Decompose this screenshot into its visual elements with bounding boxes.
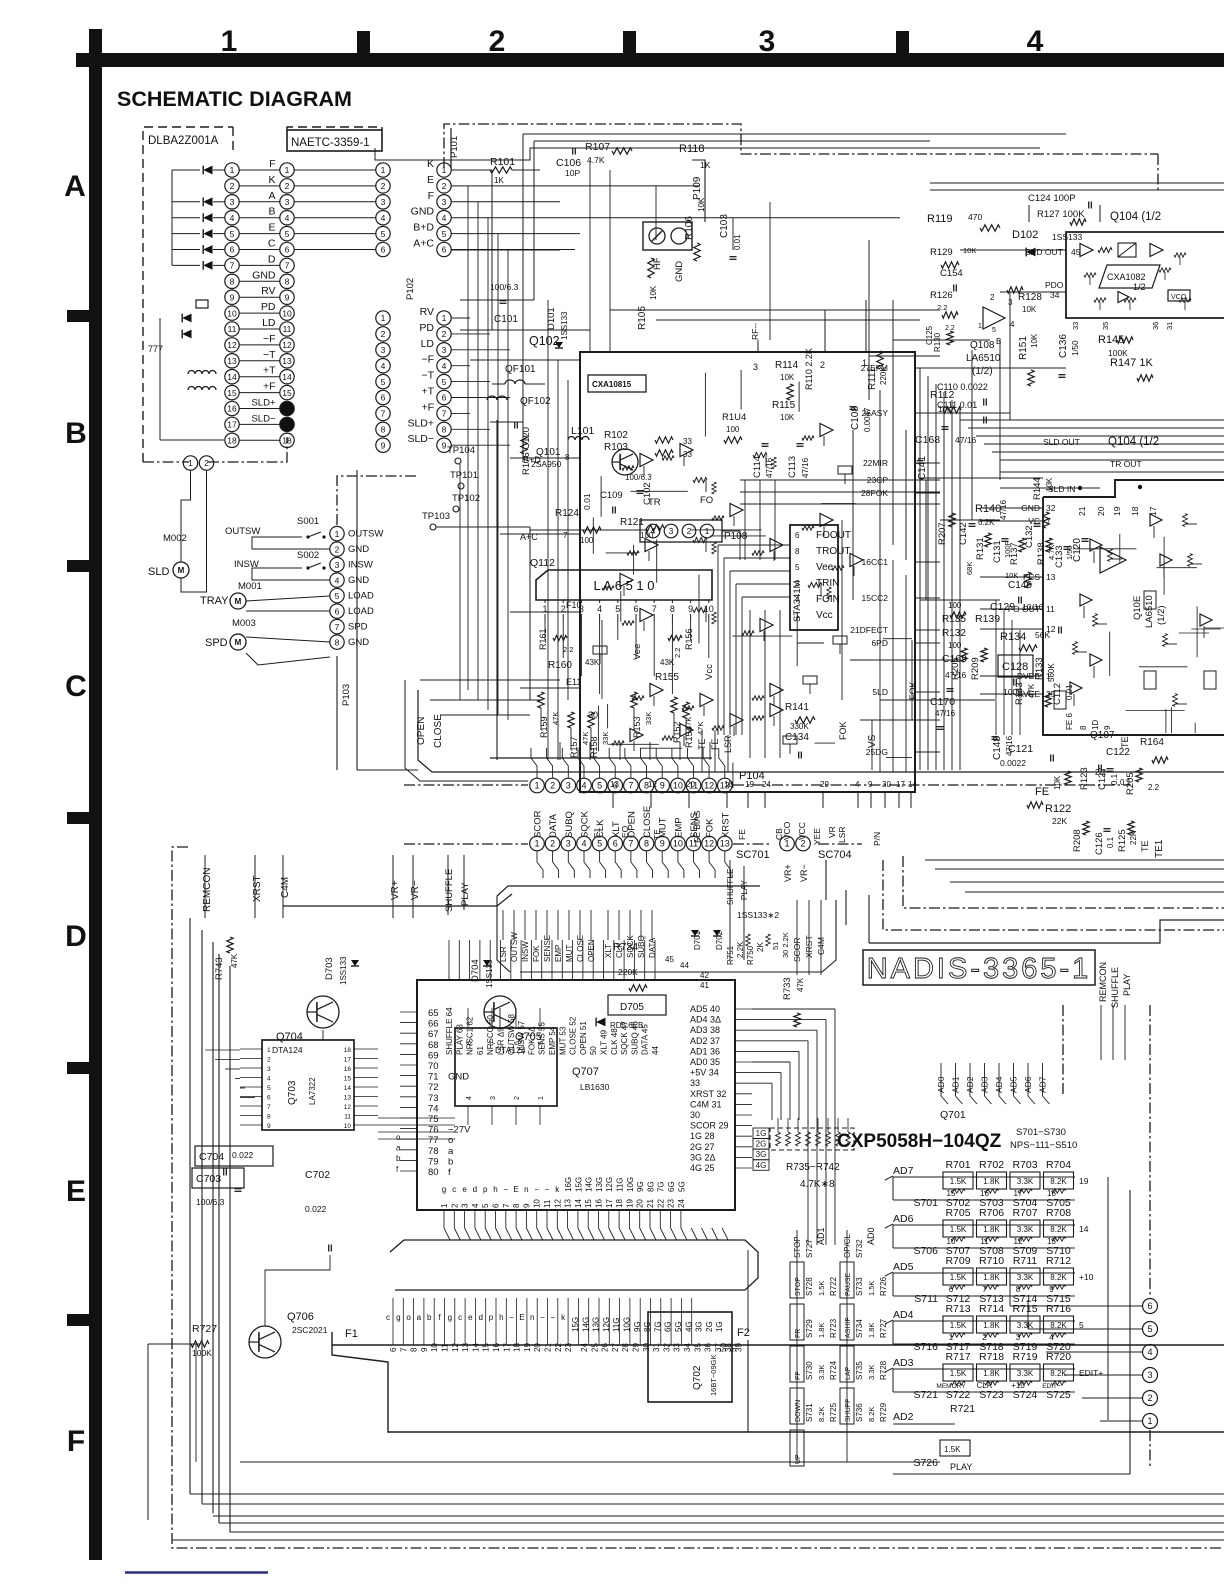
svg-text:+10: +10	[1079, 1272, 1094, 1282]
connector P104 pin 5	[592, 778, 607, 793]
connector P102 mate pin 1	[376, 311, 390, 325]
opamp Q108B LA6510 1/2	[983, 307, 1005, 329]
svg-text:25: 25	[590, 1343, 599, 1352]
svg-text:PD: PD	[261, 301, 276, 313]
svg-text:6: 6	[381, 245, 386, 255]
connector P103 pin 8	[330, 635, 344, 649]
svg-text:R127 100K: R127 100K	[1037, 209, 1085, 220]
svg-text:30: 30	[642, 1343, 651, 1352]
svg-text:9: 9	[660, 839, 665, 849]
wire trunk SHUFFLE PLAY risers	[729, 860, 731, 960]
svg-text:4: 4	[442, 213, 447, 223]
edge connector pin 1	[1143, 1414, 1158, 1429]
svg-text:Q10E: Q10E	[1132, 596, 1143, 620]
svg-text:5: 5	[381, 229, 386, 239]
connector P102 mate pin 8	[376, 422, 390, 436]
connector CN101 pin 6	[225, 242, 239, 256]
svg-text:2SC2021: 2SC2021	[292, 1325, 328, 1335]
wire verticals lower-left	[204, 855, 206, 918]
opamp Q104 internal 1	[1080, 244, 1093, 257]
svg-text:E: E	[519, 1313, 524, 1322]
svg-text:d: d	[473, 1185, 477, 1194]
svg-text:EMP: EMP	[554, 945, 563, 962]
svg-text:3: 3	[442, 345, 447, 355]
connector CN101 pin 8	[225, 274, 239, 288]
connector CN101 pin 4	[225, 211, 239, 225]
wire bus NAETC to right	[523, 133, 1066, 135]
svg-text:65: 65	[428, 1008, 439, 1019]
connector P102 pin 2	[437, 327, 451, 341]
connector SC701 pin 13	[718, 836, 733, 851]
svg-text:D703: D703	[324, 957, 335, 980]
svg-text:2: 2	[550, 781, 555, 791]
svg-text:1SS133: 1SS133	[339, 956, 348, 985]
connector P102 mate pin 9	[376, 438, 390, 452]
svg-text:C126: C126	[1094, 832, 1105, 855]
ruler tick left 0	[67, 310, 89, 322]
svg-text:10: 10	[704, 604, 714, 614]
svg-text:TR: TR	[648, 497, 661, 508]
connector P104 pin 8	[639, 778, 654, 793]
switch S733 PAUSE	[840, 1262, 854, 1298]
svg-text:SLD: SLD	[148, 566, 169, 578]
svg-text:C136: C136	[1058, 334, 1069, 358]
wire row	[294, 233, 376, 235]
svg-text:12: 12	[451, 1343, 460, 1352]
svg-text:TR OUT: TR OUT	[1110, 459, 1142, 469]
svg-text:47/16: 47/16	[955, 435, 977, 445]
svg-text:Vcc: Vcc	[704, 664, 715, 680]
svg-text:g: g	[396, 1313, 400, 1322]
svg-text:47/16: 47/16	[765, 457, 774, 478]
svg-text:74: 74	[428, 1103, 439, 1114]
svg-text:E: E	[513, 1185, 518, 1194]
svg-text:7: 7	[335, 622, 340, 632]
svg-text:12: 12	[704, 839, 714, 849]
svg-text:1.5K: 1.5K	[950, 1225, 967, 1234]
svg-text:8: 8	[1079, 725, 1088, 730]
svg-text:R129: R129	[930, 247, 953, 258]
svg-text:4G: 4G	[756, 1161, 767, 1170]
connector P101 pin 4	[437, 211, 451, 225]
svg-text:D: D	[65, 920, 87, 953]
svg-text:M001: M001	[238, 581, 262, 592]
svg-text:SHUFFLE: SHUFFLE	[1110, 967, 1120, 1008]
svg-text:1: 1	[442, 165, 447, 175]
svg-text:A: A	[268, 190, 275, 202]
svg-text:S723: S723	[979, 1389, 1004, 1401]
svg-text:10K: 10K	[780, 413, 795, 422]
svg-text:C146: C146	[1008, 580, 1032, 591]
connector SC704 pin 2	[796, 836, 811, 851]
svg-text:SUBQ 46: SUBQ 46	[630, 1021, 639, 1055]
svg-text:SQCK: SQCK	[626, 935, 635, 958]
svg-text:18: 18	[1130, 506, 1140, 516]
connector CN101 pin 3	[225, 195, 239, 209]
connector P102 pin 8	[437, 422, 451, 436]
svg-text:6: 6	[795, 531, 800, 540]
connector P104 pin 1	[530, 778, 545, 793]
svg-text:6: 6	[613, 781, 618, 791]
svg-text:R728: R728	[879, 1360, 888, 1380]
svg-text:67: 67	[428, 1029, 439, 1040]
svg-text:C170: C170	[930, 696, 955, 708]
svg-text:GND: GND	[252, 269, 276, 281]
svg-text:INSW: INSW	[521, 941, 530, 962]
connector P103 pin 3	[330, 557, 344, 571]
svg-text:PD: PD	[419, 322, 434, 334]
wires S001/S002 to P103	[252, 537, 330, 549]
board boundary upper right step dash-dot	[903, 856, 1224, 908]
connector P103 pin 7	[330, 619, 344, 633]
wire pin up	[703, 748, 709, 778]
svg-text:3: 3	[1008, 298, 1013, 307]
connector CN102 pin 6	[280, 242, 294, 256]
svg-text:73: 73	[428, 1093, 439, 1104]
svg-text:1: 1	[795, 611, 800, 620]
svg-text:15: 15	[584, 1199, 593, 1208]
svg-text:AD6: AD6	[893, 1213, 914, 1225]
wires AD bus from Q701	[752, 1008, 835, 1010]
svg-text:9: 9	[420, 1347, 429, 1352]
svg-text:NADIS-3365-1: NADIS-3365-1	[867, 953, 1092, 985]
wire row	[239, 312, 280, 314]
wire R124 net	[530, 529, 646, 531]
svg-text:1: 1	[534, 839, 539, 849]
svg-text:UP: UP	[795, 1454, 802, 1464]
svg-text:1: 1	[705, 526, 710, 536]
resistor RV network	[196, 300, 208, 308]
svg-text:2: 2	[1147, 1393, 1152, 1403]
svg-text:LA6510: LA6510	[1144, 595, 1155, 628]
bus band below Q701	[390, 1240, 758, 1290]
wire chains left	[159, 318, 161, 440]
connector SC701 pin 2	[545, 836, 560, 851]
svg-text:10K: 10K	[1030, 333, 1039, 348]
diode LED row 7	[203, 261, 212, 270]
connector P108 pin 4	[646, 524, 660, 538]
wire pin up	[578, 748, 584, 778]
svg-text:18: 18	[344, 1047, 352, 1054]
svg-text:14: 14	[471, 1343, 480, 1352]
wire row	[239, 280, 280, 282]
connector P101 pin 6	[437, 242, 451, 256]
svg-text:C154: C154	[940, 268, 963, 279]
svg-text:R735−R742: R735−R742	[786, 1162, 840, 1173]
svg-text:17: 17	[227, 420, 237, 430]
svg-text:XLT: XLT	[604, 944, 613, 958]
wire row	[294, 217, 376, 219]
svg-text:OPEN: OPEN	[626, 811, 637, 838]
svg-text:14: 14	[908, 780, 917, 789]
svg-text:4: 4	[1010, 320, 1015, 329]
svg-text:1.5K: 1.5K	[950, 1177, 967, 1186]
svg-text:Q701: Q701	[940, 1109, 966, 1121]
svg-text:GND: GND	[348, 637, 369, 648]
connector P104 pin 13	[718, 778, 733, 793]
svg-text:1: 1	[1147, 1416, 1152, 1426]
svg-text:−F: −F	[421, 354, 434, 366]
transistor Q706 2SC2021	[249, 1326, 281, 1358]
svg-text:3: 3	[1147, 1370, 1152, 1380]
connector P104 pin 9	[655, 778, 670, 793]
svg-text:R751: R751	[726, 945, 735, 965]
svg-text:R152: R152	[672, 721, 682, 743]
diode D705 RD5.6EB	[608, 995, 666, 1015]
svg-text:7: 7	[628, 781, 633, 791]
resistor R102 33	[655, 437, 673, 443]
connector CN102 pin 17	[280, 417, 294, 431]
svg-text:4.7K∗8: 4.7K∗8	[800, 1179, 835, 1190]
svg-text:VR+: VR+	[390, 880, 401, 900]
svg-text:43K: 43K	[585, 658, 600, 667]
wire row	[239, 439, 280, 441]
ruler tick left 1	[67, 560, 89, 572]
svg-text:3.3K: 3.3K	[867, 1365, 876, 1380]
svg-text:LOAD: LOAD	[348, 606, 374, 617]
svg-text:Vcc: Vcc	[816, 610, 833, 621]
svg-text:75: 75	[428, 1114, 439, 1125]
svg-text:12: 12	[282, 340, 292, 350]
svg-text:3: 3	[285, 197, 290, 207]
wire pin up	[609, 748, 615, 778]
svg-text:R153: R153	[632, 716, 642, 738]
svg-text:15: 15	[344, 1076, 352, 1083]
Q104 internal texture	[1084, 273, 1096, 277]
svg-text:9: 9	[868, 780, 873, 789]
wire pin up	[531, 748, 537, 778]
wire grid above LA6510	[740, 479, 940, 481]
svg-text:10G: 10G	[626, 1177, 635, 1192]
svg-text:5: 5	[1079, 1320, 1084, 1330]
svg-text:7: 7	[442, 409, 447, 419]
svg-text:15: 15	[282, 388, 292, 398]
wire pin up	[594, 748, 600, 778]
connector P102 mate pin 7	[376, 406, 390, 420]
svg-text:1SS133: 1SS133	[560, 311, 569, 340]
svg-text:23: 23	[667, 1199, 676, 1208]
svg-text:S736: S736	[855, 1403, 864, 1422]
diode LED row 1	[203, 166, 212, 175]
svg-text:5: 5	[335, 591, 340, 601]
svg-text:47/16: 47/16	[935, 709, 956, 718]
svg-text:R151: R151	[1018, 336, 1029, 360]
svg-text:LD: LD	[262, 317, 276, 329]
svg-text:−: −	[550, 1313, 555, 1322]
svg-text:STOP: STOP	[795, 1277, 802, 1296]
wire row	[239, 169, 280, 171]
svg-text:R205: R205	[1125, 772, 1136, 795]
connector CN101 pin 12	[225, 338, 239, 352]
svg-text:C: C	[268, 238, 276, 250]
svg-text:10K: 10K	[649, 285, 658, 300]
svg-text:79: 79	[428, 1156, 439, 1167]
wire row	[239, 328, 280, 330]
svg-text:2: 2	[442, 181, 447, 191]
svg-text:1.5K: 1.5K	[817, 1281, 826, 1296]
servo internal texture	[1090, 539, 1102, 551]
page border top ruler bar	[76, 53, 1224, 67]
funnel into Q701 top	[497, 896, 510, 972]
svg-text:10: 10	[673, 781, 683, 791]
svg-text:C4M: C4M	[280, 877, 291, 898]
svg-text:GND: GND	[348, 575, 369, 586]
svg-text:−: −	[503, 1185, 508, 1194]
wire Q706 collector	[265, 1255, 330, 1326]
svg-text:1: 1	[440, 1203, 449, 1208]
Q701 1G-4G boxes	[753, 1128, 769, 1139]
svg-text:R159: R159	[539, 716, 549, 738]
svg-text:HF: HF	[652, 257, 663, 270]
connector CN102 pin 7	[280, 258, 294, 272]
svg-text:CLOSE: CLOSE	[642, 806, 653, 838]
connector CN101 pin 2	[225, 179, 239, 193]
svg-text:FOIN: FOIN	[816, 594, 840, 605]
wire row	[239, 344, 280, 346]
test connector P109	[643, 222, 692, 250]
svg-text:C128: C128	[1002, 661, 1028, 673]
Q102 internal amplifier texture	[640, 454, 653, 467]
svg-text:32: 32	[662, 1343, 671, 1352]
svg-text:R128: R128	[1018, 292, 1042, 303]
wire row	[239, 217, 280, 219]
svg-text:B: B	[65, 417, 87, 450]
svg-text:4: 4	[230, 213, 235, 223]
svg-text:S733: S733	[855, 1277, 864, 1296]
svg-text:11: 11	[689, 839, 698, 849]
svg-text:8: 8	[644, 781, 649, 791]
svg-text:3.3K: 3.3K	[817, 1365, 826, 1380]
svg-text:g: g	[448, 1313, 452, 1322]
svg-text:9: 9	[267, 1123, 271, 1130]
capacitor C703 100/6.3	[192, 1168, 244, 1188]
switch S729 FR	[790, 1304, 804, 1340]
svg-text:LD: LD	[421, 338, 435, 350]
wire M002	[181, 470, 191, 562]
svg-text:6: 6	[230, 245, 235, 255]
svg-text:−: −	[545, 1185, 550, 1194]
svg-text:CLK: CLK	[615, 942, 624, 958]
svg-text:17: 17	[605, 1199, 614, 1208]
svg-text:R709: R709	[945, 1255, 970, 1267]
svg-text:SENS 55: SENS 55	[538, 1022, 547, 1055]
IC CXA1082 label box	[1099, 265, 1160, 288]
svg-text:3.3K: 3.3K	[1017, 1369, 1034, 1378]
wire drops from P101 bus	[491, 170, 493, 330]
connector SC701 pin 6	[608, 836, 623, 851]
svg-text:14G: 14G	[585, 1177, 594, 1192]
svg-text:6: 6	[442, 245, 447, 255]
svg-text:1: 1	[230, 165, 235, 175]
svg-text:E: E	[268, 222, 275, 234]
svg-text:6: 6	[267, 1095, 271, 1102]
svg-text:8: 8	[410, 1347, 419, 1352]
photodiode D2	[182, 314, 191, 323]
svg-text:8: 8	[335, 637, 340, 647]
wire row	[239, 185, 280, 187]
svg-text:AD2 37: AD2 37	[690, 1036, 720, 1046]
connector P101 mate pin 6	[376, 242, 390, 256]
svg-text:10: 10	[430, 1343, 439, 1352]
svg-text:Q706: Q706	[287, 1311, 314, 1323]
connector CN102 pin 13	[280, 354, 294, 368]
svg-text:R147 1K: R147 1K	[1110, 357, 1153, 369]
svg-text:Q108: Q108	[970, 340, 995, 351]
svg-text:2: 2	[381, 181, 386, 191]
svg-text:6: 6	[285, 245, 290, 255]
wire pin down	[678, 851, 684, 878]
svg-text:S732: S732	[855, 1239, 864, 1258]
svg-text:6: 6	[613, 839, 618, 849]
svg-text:C133: C133	[1054, 545, 1065, 568]
svg-text:24: 24	[580, 1343, 589, 1352]
svg-text:560K: 560K	[1047, 663, 1056, 682]
wire row	[239, 264, 280, 266]
svg-text:R714: R714	[979, 1303, 1004, 1315]
svg-text:3G 2Δ: 3G 2Δ	[690, 1152, 716, 1162]
connector CN101 pin 15	[225, 385, 239, 399]
diode LED row 6	[203, 245, 212, 254]
wire bottom bus horizontals	[190, 1493, 1224, 1495]
svg-text:8: 8	[267, 1114, 271, 1121]
svg-text:R727: R727	[879, 1318, 888, 1338]
svg-text:10: 10	[533, 1199, 542, 1208]
svg-text:M: M	[235, 638, 242, 647]
svg-text:S706: S706	[913, 1245, 938, 1257]
wire row	[294, 201, 376, 203]
svg-text:11: 11	[689, 781, 698, 791]
wire pin down	[615, 851, 621, 878]
wire pin down	[709, 851, 715, 878]
svg-text:4: 4	[267, 1076, 271, 1083]
svg-text:17: 17	[344, 1057, 352, 1064]
svg-text:S721: S721	[913, 1389, 938, 1401]
diode LED row 4	[203, 213, 212, 222]
svg-text:3: 3	[335, 560, 340, 570]
svg-text:1: 1	[534, 781, 539, 791]
edge connector pin 3	[1143, 1368, 1158, 1383]
svg-text:13: 13	[1046, 572, 1056, 582]
svg-text:21: 21	[544, 1343, 553, 1352]
svg-text:5: 5	[597, 839, 602, 849]
svg-text:1: 1	[335, 529, 340, 539]
connector pin 2 bottom	[199, 456, 213, 470]
svg-text:XRST: XRST	[252, 875, 263, 902]
svg-text:1/2: 1/2	[1133, 282, 1146, 292]
switch S730 FF	[790, 1346, 804, 1382]
IC Q102 CXA10815 box	[580, 352, 915, 792]
svg-text:C109: C109	[600, 490, 623, 501]
svg-text:6: 6	[442, 393, 447, 403]
wires LA6510 to P104	[559, 742, 561, 760]
svg-text:33K: 33K	[644, 712, 653, 725]
svg-text:32: 32	[1046, 503, 1056, 513]
connector CN101 pin 1	[225, 163, 239, 177]
svg-text:C134: C134	[785, 732, 809, 743]
svg-text:20: 20	[533, 1343, 542, 1352]
svg-text:R137: R137	[1009, 542, 1020, 565]
svg-text:NRSCO 60: NRSCO 60	[486, 1014, 495, 1055]
wire row	[239, 233, 280, 235]
svg-text:12: 12	[227, 340, 237, 350]
connector P103 pin 4	[330, 573, 344, 587]
svg-text:REMCON: REMCON	[202, 868, 213, 912]
svg-text:AD0: AD0	[866, 1227, 876, 1245]
svg-text:Q703: Q703	[287, 1080, 298, 1105]
svg-text:LAP: LAP	[845, 1366, 852, 1380]
svg-text:PLAY: PLAY	[950, 1462, 972, 1472]
svg-text:10: 10	[344, 1123, 352, 1130]
